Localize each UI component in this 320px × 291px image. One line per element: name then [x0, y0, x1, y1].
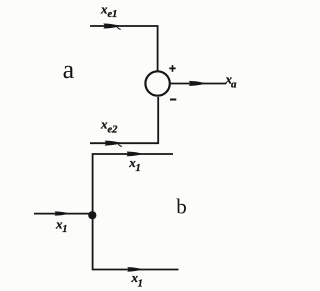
svg-text:a: a [231, 79, 237, 91]
svg-text:b: b [176, 194, 187, 218]
svg-text:1: 1 [136, 163, 141, 174]
svg-text:a: a [63, 55, 75, 84]
svg-text:1: 1 [138, 278, 143, 289]
svg-text:e1: e1 [108, 9, 118, 20]
svg-text:e2: e2 [108, 124, 119, 135]
svg-text:1: 1 [62, 224, 67, 235]
